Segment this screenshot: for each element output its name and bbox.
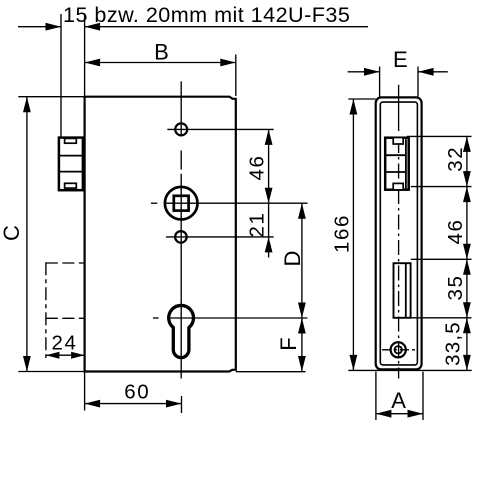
dimension 35 line with arrows [466,259,468,318]
lower hole centre line horizontal [166,236,274,238]
faceplate inner outline [380,102,417,365]
extension line cut-out bottom right [411,317,472,319]
svg-text:24: 24 [51,332,77,355]
dimension 60 line with arrows [85,403,182,405]
follower square spindle hole [174,196,189,211]
latch bolt divider upper [59,155,83,157]
svg-text:D: D [280,251,305,267]
dimension 46 right line with arrows [466,187,468,260]
svg-text:33,5: 33,5 [442,321,465,366]
upper hole centre line horizontal [167,128,273,130]
extension line case bottom right [236,371,306,373]
dimension C line with arrows [26,97,28,372]
cylinder cut-out inner line [405,263,407,318]
extension line case front below [84,372,86,411]
faceplate screw hole inner [395,346,402,353]
latch bolt side inner line [405,139,407,188]
latch bolt side top notch [393,138,403,145]
extension line case right corner up [235,55,237,97]
latch bolt bottom slot [65,183,77,188]
dimension 46 line (hole spacing) [268,129,270,237]
extension line faceplate bottom long [348,369,471,371]
dimension D line with arrows [301,203,303,318]
svg-text:15 bzw. 20mm mit 142U-F35: 15 bzw. 20mm mit 142U-F35 [63,2,350,27]
upper fixing hole [175,123,187,135]
svg-text:A: A [391,388,406,413]
lower fixing hole [175,231,187,243]
extension line case bottom left [18,371,84,373]
svg-text:35: 35 [444,274,467,300]
dashed clearance outline bottom [46,317,85,319]
extension line faceplate left edge [60,14,62,138]
svg-text:46: 46 [444,218,467,244]
dimension E left leader with arrow [348,71,380,73]
svg-text:E: E [393,47,408,72]
dimension 21 bottom arrow [265,237,273,253]
extension line faceplate left below [375,372,377,420]
dimension 15/20 leader left with arrow [18,26,61,28]
dashed clearance outline side [45,262,47,358]
follower centre line horizontal [151,202,157,204]
dimension 24 line with arrows [46,354,85,356]
lock case outline (front view) [85,97,236,372]
extension line case top left [18,96,84,98]
profile cylinder hole [169,305,194,357]
dimension 32 line with arrows [466,136,468,186]
svg-text:46: 46 [246,154,269,180]
latch bolt top slot [65,138,77,143]
extension line case front above [84,14,86,97]
follower hub circle [165,187,198,220]
latch bolt side divider upper [386,154,406,156]
dimension B line with arrows [85,62,236,64]
latch bolt side divider lower [386,171,406,173]
faceplate screw hole outer [391,342,406,357]
svg-text:60: 60 [124,381,150,404]
cylinder cut-out (side view) [394,263,411,318]
dimension A line with arrows [376,413,423,415]
vertical centre line (side view) [398,85,400,131]
svg-text:C: C [0,225,24,241]
svg-text:32: 32 [444,146,467,172]
dashed clearance outline top [46,262,85,264]
faceplate outer outline (side view) [376,97,422,369]
svg-text:166: 166 [331,214,354,253]
extension line faceplate top left [348,98,375,100]
screw hole centre line horizontal [382,349,416,351]
latch bolt (front view) [59,138,83,191]
extension line latch bottom right [411,186,472,188]
dimension 15/20 leader right with arrow [85,26,368,28]
latch bolt (side view) [385,138,409,190]
extension line E left [379,67,381,97]
extension line cylinder axis below [181,396,183,413]
extension line faceplate right below [422,372,424,420]
dimension 166 line with arrows [352,99,354,370]
svg-text:B: B [154,40,169,65]
cylinder centre line horizontal [153,317,159,319]
vertical centre line (front view) [180,81,182,135]
latch bolt divider lower [59,171,83,173]
extension line cut-out top right [411,258,472,260]
extension line latch top right [407,135,472,137]
dimension E right leader with arrow [418,71,448,73]
dimension 33,5 line with arrows [466,318,468,371]
svg-text:21: 21 [246,211,269,237]
extension line E right [417,67,419,97]
latch bolt side bottom notch [393,183,403,190]
svg-text:F: F [276,337,301,350]
dimension F line with arrows [301,318,303,372]
